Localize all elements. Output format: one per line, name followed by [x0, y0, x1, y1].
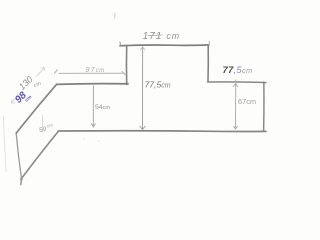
dim line 97cm: [54, 70, 126, 76]
wall: top edge 171cm: [120, 44, 209, 47]
diagonal dim line (130/98cm): [12, 68, 45, 104]
svg-text:77,5cm: 77,5cm: [223, 64, 253, 75]
faint specks: [114, 13, 116, 20]
wall: bottom long: [58, 130, 266, 133]
svg-text:67cm: 67cm: [238, 97, 256, 106]
vertex blob at closet bottom corner: [20, 179, 23, 185]
dim line 67cm: [233, 80, 238, 130]
dim line 77.5 vertical center: [140, 47, 146, 130]
svg-text:54cm: 54cm: [95, 104, 110, 111]
svg-text:171 cm: 171 cm: [143, 31, 181, 42]
faint paper fold line left: [3, 116, 6, 172]
wall: right vertical of top box: [207, 45, 209, 81]
label 130 cm (pencil, rotated): [17, 74, 35, 92]
dim line 54cm: [91, 86, 95, 127]
wall: right vertical: [263, 82, 265, 131]
wall: main diagonal: [16, 84, 57, 133]
label 98cm (blue pen, rotated): [13, 90, 29, 106]
stroke through 171 digits: [148, 34, 163, 37]
label 59cm: [38, 124, 54, 135]
tick left end of top wall: [119, 42, 122, 46]
wall: left vertical of top box: [125, 45, 127, 84]
wall: right shelf (77.5cm): [208, 81, 266, 84]
wall: left short edge: [16, 133, 21, 178]
wall: lower-left diagonal: [22, 131, 59, 178]
dim line 59cm: [42, 115, 44, 134]
wall: left shelf (97cm): [57, 83, 129, 86]
tick right end of top wall: [208, 41, 211, 45]
